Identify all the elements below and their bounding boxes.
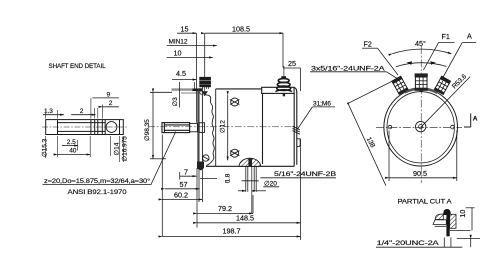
- right face thread hole + foot: [293, 126, 301, 146]
- svg-text:F1: F1: [442, 32, 450, 41]
- terminal bracket strip (top right): [262, 87, 294, 93]
- svg-text:∅98.35: ∅98.35: [144, 119, 151, 141]
- svg-text:PARTIAL CUT A: PARTIAL CUT A: [398, 199, 453, 206]
- center terminal stud (front): [415, 73, 428, 90]
- cut detail: right hatched wing: [450, 214, 456, 228]
- svg-text:2: 2: [109, 100, 113, 107]
- dim 4.5: [172, 79, 197, 81]
- svg-text:z=20,Do=15.875,m=32/64,a=30°: z=20,Do=15.875,m=32/64,a=30°: [44, 177, 151, 185]
- label F2: [362, 40, 398, 75]
- pin hole circle on right land: [106, 122, 117, 133]
- label A (top): [442, 32, 477, 80]
- terminal stud (side view): stacked nuts: [276, 66, 292, 96]
- svg-text:10: 10: [458, 210, 467, 218]
- side view centerline: [148, 126, 298, 128]
- R53.6 radius leader: [421, 73, 471, 127]
- dim 25: [283, 67, 301, 69]
- svg-text:31;M6: 31;M6: [313, 100, 331, 107]
- 45 deg dimension arcs: [392, 39, 451, 67]
- svg-text:57: 57: [180, 180, 188, 189]
- svg-text:5/16"-24UNF-2B: 5/16"-24UNF-2B: [274, 171, 337, 178]
- flange top corner block: [198, 88, 202, 91]
- svg-text:1/4"-20UNC-2A: 1/4"-20UNC-2A: [377, 240, 440, 247]
- dim 108.5: [205, 32, 284, 34]
- bottom dims of side view: [162, 135, 337, 241]
- left terminal stud F2 (front): [391, 76, 409, 96]
- cut detail: bolt shank: [446, 214, 449, 237]
- dim 90.5: [389, 131, 457, 182]
- motor shaft (side view): [162, 123, 190, 133]
- svg-text:A: A: [467, 32, 472, 41]
- extension verticals: [196, 33, 198, 122]
- svg-text:198.7: 198.7: [223, 227, 241, 236]
- svg-text:79.2: 79.2: [218, 204, 232, 213]
- svg-text:2.5: 2.5: [67, 139, 76, 146]
- dim 60.2: [162, 198, 202, 200]
- side screws on horizontal axis: [388, 125, 392, 129]
- svg-text:A: A: [473, 115, 478, 122]
- svg-text:∅3: ∅3: [172, 97, 179, 107]
- dim 1.3: [43, 114, 64, 116]
- dim 7: [180, 175, 196, 177]
- base anchor dot: [420, 90, 423, 92]
- svg-text:4.5: 4.5: [176, 69, 186, 78]
- dim 10: [450, 208, 475, 247]
- top dims of side view: [167, 24, 301, 122]
- collar stack on flange top: [200, 77, 211, 91]
- shaft detail outline: [46, 120, 124, 135]
- center hub: [416, 121, 426, 131]
- cut detail: bolt head: [443, 209, 450, 215]
- svg-text:∅15.3: ∅15.3: [42, 138, 49, 157]
- label 1/4-20UNC-2A: [376, 238, 480, 248]
- down arrow under collar: [202, 91, 208, 96]
- svg-text:F2: F2: [364, 40, 372, 49]
- svg-text:∅12: ∅12: [220, 120, 227, 133]
- housing inner ring: [387, 92, 454, 163]
- flange bottom block: [197, 162, 204, 171]
- motor flange profile (left end): [198, 88, 216, 168]
- dim 2 (left): [71, 114, 95, 116]
- dim 40: [58, 154, 91, 156]
- svg-text:10: 10: [174, 48, 182, 57]
- svg-text:90.5: 90.5: [413, 169, 427, 178]
- svg-text:108.5: 108.5: [232, 24, 250, 33]
- dim 2.5: [62, 145, 78, 147]
- extension verticals: [161, 135, 163, 237]
- svg-text:MIN12: MIN12: [169, 39, 188, 46]
- 138 leader: [347, 79, 398, 186]
- svg-text:40: 40: [69, 148, 77, 155]
- svg-text:25: 25: [288, 59, 296, 68]
- dia3 leader: [178, 82, 180, 108]
- bottom dome boss with thread: [239, 158, 261, 166]
- svg-text:45°: 45°: [415, 39, 426, 48]
- dim 9: [92, 97, 118, 99]
- dim 10: [167, 56, 213, 58]
- dim 15: [177, 32, 197, 34]
- label F1: [424, 32, 455, 70]
- svg-text:60.2: 60.2: [174, 191, 188, 200]
- svg-text:2: 2: [80, 108, 84, 115]
- svg-text:7: 7: [184, 168, 188, 177]
- centerlines: [376, 126, 462, 128]
- dim 148.5: [197, 222, 301, 224]
- svg-text:148.5: 148.5: [236, 214, 254, 223]
- motor body outline: [206, 88, 297, 167]
- dim 198.7: [162, 236, 300, 238]
- shaft detail centerline: [42, 126, 127, 128]
- svg-text:15: 15: [181, 24, 189, 33]
- svg-text:ANSI B92.1-1970: ANSI B92.1-1970: [68, 189, 127, 196]
- section A marker (right): [464, 113, 478, 127]
- grey washer line: [172, 88, 193, 90]
- dim 2 (upper right): [102, 106, 119, 108]
- dim MIN12: [167, 45, 217, 47]
- svg-text:3x5/16"-24UNF-2A: 3x5/16"-24UNF-2A: [311, 65, 385, 72]
- housing outer ring: [384, 89, 458, 166]
- label 3x5/16-24UNF-2A: [310, 65, 398, 79]
- cut detail: left hatched washer: [435, 214, 443, 220]
- svg-text:1.3: 1.3: [44, 108, 53, 115]
- svg-text:SHAFT END DETAIL: SHAFT END DETAIL: [49, 63, 106, 70]
- brush screws (cross circles): [202, 98, 239, 161]
- dia 98.35 dim: [144, 92, 172, 159]
- label 31;M6: [298, 100, 336, 129]
- dim 57: [165, 188, 200, 190]
- svg-text:1.8: 1.8: [225, 173, 232, 182]
- cut detail: left wing plate: [433, 220, 446, 225]
- svg-text:9: 9: [107, 91, 111, 98]
- svg-text:∅16.975: ∅16.975: [122, 136, 129, 162]
- right terminal stud F1 (front): [434, 76, 452, 96]
- dia12 internal dim: [227, 95, 229, 160]
- rim band under studs: [405, 89, 438, 93]
- dim 79.2: [197, 212, 253, 214]
- dim 1.8: [242, 180, 259, 182]
